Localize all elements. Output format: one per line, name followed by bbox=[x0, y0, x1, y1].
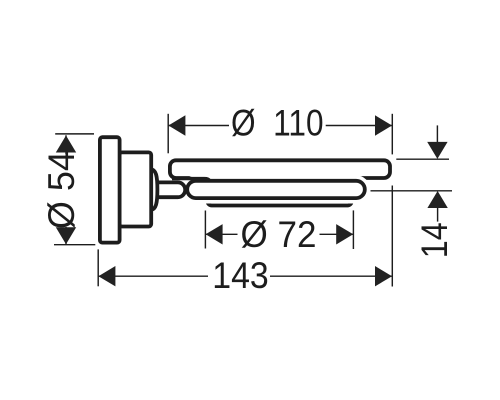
dimension Ø72: extension line right bbox=[352, 210, 354, 249]
dimension Ø54: extension line bottom bbox=[54, 244, 95, 246]
dimension Ø72: arrow right bbox=[336, 224, 353, 244]
svg-text:143: 143 bbox=[212, 254, 269, 296]
lower dish ring (Ø72 bar) bbox=[208, 194, 352, 206]
dimension 14: leader line above bbox=[436, 125, 438, 145]
dimension Ø110: arrow right bbox=[375, 115, 392, 135]
dimension Ø54: label bbox=[40, 151, 82, 229]
mount body bbox=[120, 152, 152, 226]
svg-text:14: 14 bbox=[413, 222, 455, 258]
dimension Ø72: dimension line left segment bbox=[206, 233, 238, 235]
dimension Ø110: arrow left bbox=[168, 115, 185, 135]
dimension Ø110: extension line right upper bbox=[391, 114, 393, 155]
dimension 14: label bbox=[413, 222, 455, 258]
dimension Ø72: arrow left bbox=[206, 224, 223, 244]
dimension Ø72: dimension line right segment bbox=[320, 233, 354, 235]
dimension 143: dimension line left segment bbox=[99, 275, 209, 277]
dimension 14: leader line below bbox=[437, 208, 439, 222]
dimension Ø54: dimension line lower segment bbox=[65, 227, 67, 244]
mount bulge bbox=[151, 169, 157, 209]
dimension Ø72: label bbox=[241, 213, 317, 255]
dimension 143: label bbox=[212, 254, 269, 296]
svg-text:Ø 110: Ø 110 bbox=[231, 102, 324, 144]
dimension Ø54: dimension line upper segment bbox=[65, 135, 67, 154]
dimension 14: extension line lower bbox=[371, 190, 453, 192]
dimension 143: arrow left bbox=[98, 266, 115, 286]
svg-text:Ø 72: Ø 72 bbox=[241, 213, 317, 255]
dimension 143: dimension line right segment bbox=[270, 275, 392, 277]
dimension 14: arrow up bbox=[427, 191, 447, 208]
wall plate bbox=[100, 137, 120, 242]
dimension Ø110: dimension line right segment bbox=[326, 125, 392, 127]
dimension Ø110: dimension line left segment bbox=[169, 125, 230, 127]
middle dish body bar bbox=[187, 181, 365, 198]
top plate to dish body transition edge bbox=[172, 179, 210, 181]
dimension 14: extension line upper bbox=[396, 158, 449, 160]
dimension Ø54: arrow up bbox=[56, 136, 76, 153]
dimension Ø54: arrow down bbox=[56, 227, 76, 244]
stem connector bbox=[152, 182, 185, 197]
dimension 14: arrow down bbox=[427, 142, 447, 159]
top dish plate (Ø110 bar) bbox=[170, 160, 390, 178]
dimension Ø110: label bbox=[231, 102, 324, 144]
dimension Ø72: extension line left bbox=[204, 211, 206, 249]
dimension 143: extension line right bbox=[391, 186, 393, 287]
dimension Ø54: extension line top bbox=[55, 133, 94, 135]
dimension Ø110: extension line left bbox=[167, 114, 169, 154]
dimension 143: extension line left bbox=[97, 249, 99, 286]
dimension 143: arrow right bbox=[375, 266, 392, 286]
svg-text:Ø 54: Ø 54 bbox=[40, 151, 82, 229]
